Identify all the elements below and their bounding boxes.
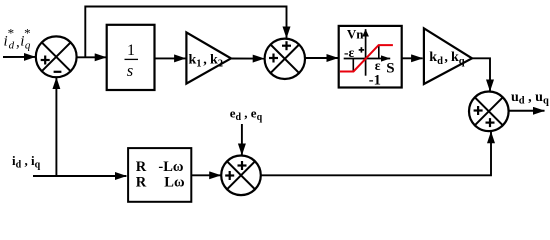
wire: saturation block to gain kd,kq — [403, 57, 423, 59]
S1 minus sign — [54, 71, 62, 73]
wire: ed,eq arrow down into S4 — [241, 124, 243, 155]
svg-text:d: d — [9, 40, 15, 52]
S3 plus sign (bottom) — [486, 118, 495, 127]
summing junction S3 — [469, 92, 509, 132]
svg-text:,: , — [16, 34, 20, 50]
svg-text:k: k — [429, 50, 437, 65]
S3 plus sign (left) — [474, 106, 483, 115]
wire: R block to S4 — [191, 174, 220, 176]
wire: feedforward branch from node up and over to S2 — [85, 7, 286, 58]
wire: bottom input line into R block — [33, 175, 126, 177]
svg-text:ε: ε — [375, 58, 381, 73]
wire: reference input into summing junction S1 — [3, 56, 35, 58]
input label i_d*, i_q* — [4, 26, 31, 52]
wire: gain kd,kq right then down into S3 — [472, 58, 491, 91]
svg-text:R: R — [136, 159, 147, 175]
svg-text:k: k — [451, 50, 459, 65]
S1 plus sign — [41, 56, 50, 65]
red saturation curve — [340, 45, 393, 71]
svg-text:Vn: Vn — [347, 27, 364, 42]
R / -Lw block — [128, 148, 191, 202]
S2 plus sign (left) — [269, 54, 278, 63]
small plus above axis — [359, 47, 364, 52]
gain block kd,kq — [424, 28, 472, 84]
output wire u — [509, 110, 545, 112]
tick at -epsilon — [352, 59, 354, 72]
svg-text:ed , eq: ed , eq — [230, 106, 263, 123]
wire: S4 output right then up into S3 — [261, 132, 491, 176]
svg-text:S: S — [386, 60, 394, 76]
svg-text:-Lω: -Lω — [158, 159, 184, 175]
gain block k1,k2 — [186, 32, 231, 83]
wire: feedback branch up into S1 minus input — [55, 78, 57, 176]
svg-text:,: , — [203, 52, 207, 67]
S4 plus sign (top) — [238, 161, 247, 170]
svg-text:2: 2 — [218, 59, 223, 70]
svg-text:,: , — [444, 50, 448, 65]
svg-text:*: * — [8, 26, 15, 41]
svg-text:1: 1 — [196, 59, 201, 70]
S4 plus sign (left) — [225, 171, 234, 180]
tick at +epsilon — [378, 45, 380, 58]
svg-text:d: d — [437, 56, 443, 67]
svg-text:q: q — [459, 56, 465, 67]
summing junction S2 — [265, 39, 305, 79]
svg-text:1: 1 — [127, 42, 135, 59]
svg-text:k: k — [189, 52, 197, 67]
svg-text:q: q — [25, 40, 31, 52]
svg-text:k: k — [210, 52, 218, 67]
svg-text:*: * — [24, 26, 31, 41]
svg-text:s: s — [127, 61, 133, 80]
svg-text:-1: -1 — [369, 73, 381, 89]
integrator block 1/s — [107, 25, 155, 90]
horizontal axis S — [344, 58, 391, 60]
S2 plus sign (top) — [282, 41, 291, 50]
wire: integrator to gain k1,k2 — [155, 57, 186, 59]
summing junction S4 — [221, 156, 261, 196]
svg-text:R: R — [136, 175, 147, 191]
wire: S1 output to integrator — [77, 56, 107, 58]
wire: S2 to saturation block — [305, 57, 338, 59]
vertical axis — [365, 29, 367, 75]
wire: gain k1,k2 to S2 — [231, 58, 264, 60]
summing junction S1 — [36, 36, 77, 77]
saturation block Vn — [339, 26, 402, 89]
svg-text:id , iq: id , iq — [12, 153, 41, 170]
svg-text:ud , uq: ud , uq — [511, 90, 549, 106]
svg-text:-ε: -ε — [344, 45, 354, 60]
svg-text:Lω: Lω — [164, 175, 185, 191]
